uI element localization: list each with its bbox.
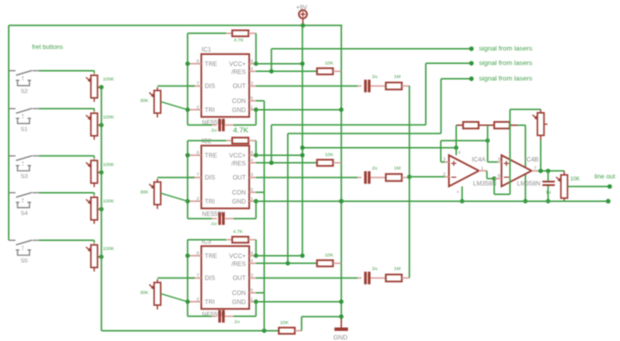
wire ground bus right <box>341 200 608 202</box>
svg-text:3: 3 <box>443 157 446 162</box>
wire cap to GND pin <box>234 124 257 126</box>
svg-text:VCC+: VCC+ <box>229 61 246 68</box>
junction pin4 on bus <box>460 199 464 203</box>
wire GND row <box>256 109 341 111</box>
pin lead <box>249 100 256 102</box>
wire GND row <box>256 301 341 303</box>
wire pot wiper bus down <box>100 87 102 331</box>
wire +input drop <box>440 141 442 162</box>
svg-text:VCC+: VCC+ <box>229 253 246 260</box>
pin lead 2 <box>445 176 449 178</box>
wire signal 2 <box>426 62 472 64</box>
wire 30K wiper to TRI (diagonal) <box>161 102 188 110</box>
potentiometer R 100K (S1) <box>86 113 98 136</box>
wire divider mid to pin5 <box>487 141 489 162</box>
wire cap to GND pin <box>234 218 257 220</box>
junction pot wiper <box>99 255 103 259</box>
svg-text:2u: 2u <box>372 74 378 80</box>
lead <box>295 330 302 332</box>
lead <box>93 158 95 160</box>
wire +9V vertical rail <box>301 25 303 255</box>
resistor 10K (bottom) <box>279 328 295 334</box>
wire <box>255 302 257 317</box>
lead <box>226 239 232 241</box>
lead <box>212 124 217 126</box>
wire S5 to pot <box>39 239 94 241</box>
svg-text:CON: CON <box>232 290 246 297</box>
lead <box>479 124 495 126</box>
pin lead <box>189 154 201 156</box>
op-amp U IC4B <box>502 155 532 186</box>
wire <box>93 193 95 195</box>
pin lead <box>249 255 256 257</box>
potentiometer 10K (output) <box>556 175 568 198</box>
wire up from 10K <box>301 317 303 331</box>
svg-text:10K: 10K <box>325 152 334 158</box>
svg-text:/RES: /RES <box>231 69 245 76</box>
pin lead <box>249 292 256 294</box>
pin lead <box>249 162 256 164</box>
resistor 10K (/RES IC2) <box>317 160 333 166</box>
junction TRI <box>185 199 189 203</box>
svg-text:1u: 1u <box>546 190 552 196</box>
wire signal 1 <box>271 48 471 50</box>
pin lead <box>189 177 201 179</box>
junction TRE <box>185 153 189 157</box>
svg-text:10K: 10K <box>570 176 580 182</box>
wire out jog <box>486 171 488 179</box>
lead pot bottom <box>93 98 95 102</box>
wire CON to rail <box>256 100 264 102</box>
pin lead <box>249 109 256 111</box>
wire TRE/TRI node IC3 <box>187 240 189 317</box>
junction GND rail <box>339 108 343 112</box>
wire <box>487 178 494 180</box>
pin lead 5 <box>498 161 502 163</box>
wire <box>93 71 95 73</box>
svg-text:CON: CON <box>232 190 246 197</box>
capacitor .1u (IC1) <box>218 119 224 132</box>
junction /RES IC3 <box>286 261 290 265</box>
svg-text:30K: 30K <box>140 290 149 296</box>
op 555 timer IC3 <box>201 246 249 309</box>
wire CON to rail <box>256 292 264 294</box>
svg-text:2: 2 <box>197 296 200 301</box>
junction /RES IC2 <box>269 161 273 165</box>
wire signal 3 jog left <box>288 133 441 135</box>
capacitor 2u (IC2) <box>364 171 370 184</box>
junction pot wiper <box>99 207 103 211</box>
wiper lead <box>98 208 101 210</box>
lead <box>563 198 565 201</box>
svg-text:1M: 1M <box>394 266 401 272</box>
lead <box>212 218 217 220</box>
wire signal 3 <box>441 78 471 80</box>
lead <box>358 277 362 279</box>
svg-text:NE555N: NE555N <box>202 211 225 218</box>
lead <box>225 218 234 220</box>
svg-text:/RES: /RES <box>231 160 245 167</box>
potentiometer R 100K (S5) <box>86 245 98 268</box>
resistor 10K (divider b) <box>494 122 510 129</box>
wire /RES row <box>256 262 317 264</box>
lead <box>93 243 95 245</box>
svg-text:2u: 2u <box>372 165 378 171</box>
node signal 3 <box>469 77 474 82</box>
svg-text:4.7K: 4.7K <box>233 125 248 134</box>
svg-text:TRI: TRI <box>205 299 215 306</box>
wiper lead <box>98 86 101 88</box>
svg-text:.1u: .1u <box>210 128 217 134</box>
svg-text:LM358N: LM358N <box>517 181 540 188</box>
svg-text:100K: 100K <box>103 199 115 205</box>
svg-text:DIS: DIS <box>205 83 215 90</box>
svg-text:6: 6 <box>498 173 501 178</box>
wire feedback up <box>509 109 511 194</box>
wiper stub <box>544 123 548 125</box>
svg-text:fret buttons: fret buttons <box>32 44 63 51</box>
svg-text:OUT: OUT <box>233 275 246 282</box>
svg-text:TRE: TRE <box>205 152 217 159</box>
svg-text:NE555N: NE555N <box>202 312 225 319</box>
pin lead <box>249 200 256 202</box>
junction pot wiper <box>99 123 103 127</box>
junction mix/summing row <box>407 175 411 179</box>
capacitor 2u (IC1) <box>364 80 370 93</box>
svg-text:S5: S5 <box>21 259 28 265</box>
svg-text:5: 5 <box>251 187 254 192</box>
potentiometer 30K (IC2) <box>149 182 161 205</box>
wire output row <box>538 170 565 172</box>
op 555 timer IC2 <box>201 146 249 209</box>
node ground bus end <box>606 199 611 204</box>
wire signal 2 drop <box>425 63 427 125</box>
wire cap to GND pin <box>234 315 257 317</box>
lead <box>402 85 410 87</box>
svg-text:100K: 100K <box>103 77 115 83</box>
svg-text:GND: GND <box>232 107 246 114</box>
resistor 10K (divider a) <box>463 122 479 129</box>
wire S1 to pot <box>39 108 94 110</box>
wire TRE/TRI node IC2 <box>187 141 189 219</box>
svg-text:line out: line out <box>595 174 616 181</box>
wire signal 2 drop to /RES IC2 <box>270 125 272 163</box>
pin lead <box>249 63 256 65</box>
svg-text:6: 6 <box>197 250 200 255</box>
junction /RES IC1 <box>269 69 273 73</box>
capacitor 1u <box>542 181 554 186</box>
pin lead <box>189 301 201 303</box>
wire node to 4.7K <box>188 140 227 142</box>
resistor 1M (IC2) <box>386 174 402 181</box>
wire VCC to +9V rail <box>256 63 302 65</box>
svg-text:10K: 10K <box>325 61 334 67</box>
lead <box>333 162 341 164</box>
wire feedback down <box>493 179 495 195</box>
svg-text:1: 1 <box>251 296 254 301</box>
wire S4 to pot <box>39 192 94 194</box>
pin lead 7 <box>532 170 538 172</box>
svg-text:10K: 10K <box>280 320 289 326</box>
svg-text:8: 8 <box>251 150 254 155</box>
svg-text:5: 5 <box>251 288 254 293</box>
pin lead <box>249 262 256 264</box>
lead <box>370 177 385 179</box>
junction divider on bus <box>523 199 527 203</box>
wire DIS to 30K pot <box>157 177 194 179</box>
lead <box>563 171 565 175</box>
wire 4.7K to VCC pin <box>255 33 257 63</box>
svg-text:/RES: /RES <box>231 261 245 268</box>
junction 1u on bus <box>546 199 550 203</box>
capacitor .1u (IC3) <box>218 310 224 323</box>
svg-text:TRE: TRE <box>205 61 217 68</box>
junction +9V rail <box>300 62 304 66</box>
svg-text:LM358N: LM358N <box>473 181 496 188</box>
svg-text:4: 4 <box>251 158 254 163</box>
svg-text:7: 7 <box>197 81 200 86</box>
pin lead <box>249 85 256 87</box>
switch S5 <box>9 240 39 255</box>
lead <box>226 140 232 142</box>
lead <box>333 70 341 72</box>
wire to timing cap <box>188 218 212 220</box>
svg-text:DIS: DIS <box>205 175 215 182</box>
svg-text:OUT: OUT <box>233 83 246 90</box>
pin lead <box>189 63 201 65</box>
svg-text:IC4B: IC4B <box>525 157 539 164</box>
wire divider bottom to bus <box>524 125 526 201</box>
wire signal 3 drop to /RES IC3 <box>287 134 289 264</box>
switch S4 <box>9 193 39 208</box>
junction TRE <box>185 254 189 258</box>
resistor 4.7K (IC1) <box>232 30 248 36</box>
wire 4.7K to VCC pin <box>255 240 257 256</box>
svg-text:8: 8 <box>251 250 254 255</box>
op 555 timer IC1 <box>201 54 249 117</box>
svg-text:30K: 30K <box>140 98 149 104</box>
wire to 1u cap <box>547 171 549 181</box>
svg-text:7: 7 <box>534 165 537 170</box>
wire signal 1 drop to /RES IC1 <box>270 49 272 72</box>
lead pot bottom <box>93 136 95 140</box>
potentiometer feedback (IC4B) <box>533 113 545 136</box>
pin lead <box>189 200 201 202</box>
wire 30K wiper to TRI (diagonal) <box>161 294 188 302</box>
svg-text:7: 7 <box>197 273 200 278</box>
node line out <box>607 184 612 189</box>
switch S2 <box>9 71 39 86</box>
resistor 10K (/RES IC3) <box>317 260 333 266</box>
wire OUT row <box>256 85 358 87</box>
resistor 1M (IC1) <box>386 83 402 90</box>
lead <box>370 277 385 279</box>
svg-text:1: 1 <box>251 104 254 109</box>
wire node to 4.7K <box>188 239 227 241</box>
svg-text:8: 8 <box>251 58 254 63</box>
pin lead 6 <box>494 178 501 180</box>
wiper lead <box>98 171 101 173</box>
svg-text:4: 4 <box>251 66 254 71</box>
junction pin8 <box>454 146 458 150</box>
junction on GND rail <box>339 314 343 318</box>
wire S2 to pot <box>39 70 94 72</box>
svg-text:S4: S4 <box>21 211 29 217</box>
svg-text:100K: 100K <box>103 246 115 252</box>
wire left +9V bus to switches <box>8 25 10 240</box>
junction GND pin <box>254 199 258 203</box>
junction TRE <box>185 62 189 66</box>
junction GND rail <box>339 300 343 304</box>
lead pot bottom <box>93 220 95 224</box>
lead pot bottom <box>156 205 158 209</box>
svg-text:signal from lasers: signal from lasers <box>479 76 533 83</box>
lead <box>249 32 257 34</box>
svg-text:3: 3 <box>251 172 254 177</box>
wire feedback to pot top <box>510 108 541 110</box>
wire 4.7K to VCC pin <box>255 141 257 156</box>
wire <box>93 156 95 158</box>
wire /RES row <box>256 70 317 72</box>
svg-text:IC2: IC2 <box>202 138 212 145</box>
lead <box>370 85 385 87</box>
wire to timing cap <box>188 124 212 126</box>
lead <box>226 32 232 34</box>
svg-text:.1u: .1u <box>233 319 240 325</box>
junction +9V on top bus <box>301 23 305 27</box>
wire OUT row <box>256 277 358 279</box>
capacitor .1u (IC2) <box>218 212 224 225</box>
resistor 10K (/RES IC1) <box>317 68 333 74</box>
svg-text:4: 4 <box>251 258 254 263</box>
wire pot bottom to output <box>540 140 542 171</box>
junction divider mid <box>485 138 489 142</box>
wire summing row to op-amp <box>409 176 445 178</box>
node signal 2 <box>469 61 474 66</box>
op-amp U IC4A <box>449 155 479 186</box>
svg-text:6: 6 <box>197 58 200 63</box>
pin lead <box>189 85 201 87</box>
wire signal 2 jog left <box>271 124 425 126</box>
junction TRI <box>185 300 189 304</box>
resistor 4.7K (IC3) <box>232 237 248 243</box>
junction pin6 IC4B <box>492 176 496 180</box>
svg-text:10K: 10K <box>325 253 334 259</box>
junction GND pin <box>254 300 258 304</box>
junction +9V rail <box>300 153 304 157</box>
junction VCC pin <box>254 62 258 66</box>
svg-text:4.7K: 4.7K <box>234 38 245 44</box>
svg-text:2: 2 <box>197 196 200 201</box>
svg-text:100K: 100K <box>103 162 115 168</box>
lead <box>358 85 362 87</box>
svg-text:5: 5 <box>498 157 501 162</box>
wire 30K wiper to TRI (diagonal) <box>161 193 188 201</box>
wire GND vertical rail <box>340 25 342 320</box>
junction bus on GND rail <box>339 199 343 203</box>
junction VCC pin <box>254 254 258 258</box>
lead <box>540 135 542 140</box>
svg-text:DIS: DIS <box>205 275 215 282</box>
switch S3 <box>9 156 39 171</box>
pin lead 3 <box>445 161 449 163</box>
lead <box>402 277 410 279</box>
pin lead <box>249 277 256 279</box>
potentiometer 30K (IC3) <box>149 283 161 306</box>
svg-text:1: 1 <box>481 165 484 170</box>
lead <box>358 177 362 179</box>
wire <box>255 201 257 218</box>
junction GND pin <box>254 108 258 112</box>
lead <box>212 315 217 317</box>
pin lead <box>189 109 201 111</box>
pin lead <box>249 177 256 179</box>
svg-text:3: 3 <box>251 273 254 278</box>
lead pot bottom <box>93 183 95 187</box>
junction +9V rail <box>300 146 304 150</box>
lead <box>249 239 257 241</box>
wire bottom bus <box>101 330 278 332</box>
svg-text:GND: GND <box>333 334 348 341</box>
junction TRI <box>185 108 189 112</box>
svg-text:3: 3 <box>251 81 254 86</box>
junction 1u cap <box>546 169 550 173</box>
wire divider mid drop <box>487 125 489 140</box>
wire DIS to 30K pot <box>157 85 194 87</box>
wire bias to +input <box>441 140 488 142</box>
lead <box>225 124 234 126</box>
lead <box>93 111 95 113</box>
lead <box>540 109 542 112</box>
pin lead <box>249 191 256 193</box>
pin lead <box>249 301 256 303</box>
junction feedback pot <box>539 169 543 173</box>
lead <box>156 279 158 282</box>
svg-text:.1u: .1u <box>210 221 217 227</box>
wiper lead <box>98 256 101 258</box>
svg-text:1M: 1M <box>394 74 401 80</box>
lead pot bottom <box>156 113 158 117</box>
wire CON rail <box>263 101 265 331</box>
svg-text:S3: S3 <box>21 174 28 180</box>
wire <box>255 110 257 125</box>
wire <box>93 109 95 111</box>
svg-text:2u: 2u <box>372 266 378 272</box>
lead <box>156 179 158 182</box>
potentiometer R 100K (S3) <box>86 161 98 184</box>
lead <box>402 177 410 179</box>
capacitor 2u (IC3) <box>364 272 370 285</box>
svg-text:signal from lasers: signal from lasers <box>479 60 533 67</box>
wire S3 to pot <box>39 155 94 157</box>
wire line out <box>568 186 610 188</box>
lead pot bottom <box>93 268 95 272</box>
lead <box>225 315 234 317</box>
junction bottom bus / CON rail <box>262 329 266 333</box>
svg-text:1: 1 <box>251 196 254 201</box>
lead <box>93 195 95 197</box>
svg-text:7: 7 <box>197 172 200 177</box>
potentiometer R 100K (S2) <box>86 75 98 98</box>
svg-text:S1: S1 <box>21 127 28 133</box>
pin lead <box>249 70 256 72</box>
wire DIS to 30K pot <box>157 277 194 279</box>
wire +9V top bus <box>9 24 343 26</box>
svg-text:100K: 100K <box>103 115 115 121</box>
junction +9V rail <box>300 254 304 258</box>
svg-text:4.7K: 4.7K <box>233 229 244 235</box>
svg-text:CON: CON <box>232 98 246 105</box>
